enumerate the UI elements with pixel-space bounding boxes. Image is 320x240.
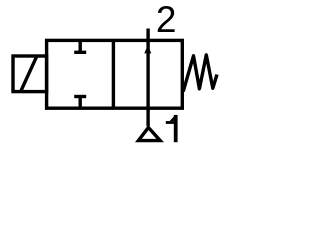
- solenoid actuator box: [13, 56, 47, 92]
- exhaust triangle (port 1): [138, 128, 160, 141]
- port 1 label (drawn: flag bar): [166, 121, 174, 124]
- blocked port symbol (bottom, left cell) crossbar: [74, 95, 86, 98]
- blocked port symbol (top, left cell) stem: [78, 40, 81, 52]
- blocked port symbol (top, left cell) crossbar: [74, 51, 86, 54]
- valve body V1 (2/2-way valve outline, two position boxes): [47, 40, 183, 108]
- svg-text:2: 2: [156, 0, 177, 40]
- flow direction arrowhead: [144, 45, 151, 53]
- position divider line: [112, 40, 115, 108]
- flow path line (port 2 to port 1 through right cell): [146, 29, 149, 127]
- return spring: [183, 55, 217, 92]
- blocked port symbol (bottom, left cell) stem: [78, 97, 81, 109]
- port 1 label (drawn: flag rise): [170, 116, 174, 121]
- port 1 label (drawn: stem): [174, 115, 178, 142]
- solenoid coil diagonal: [21, 56, 37, 91]
